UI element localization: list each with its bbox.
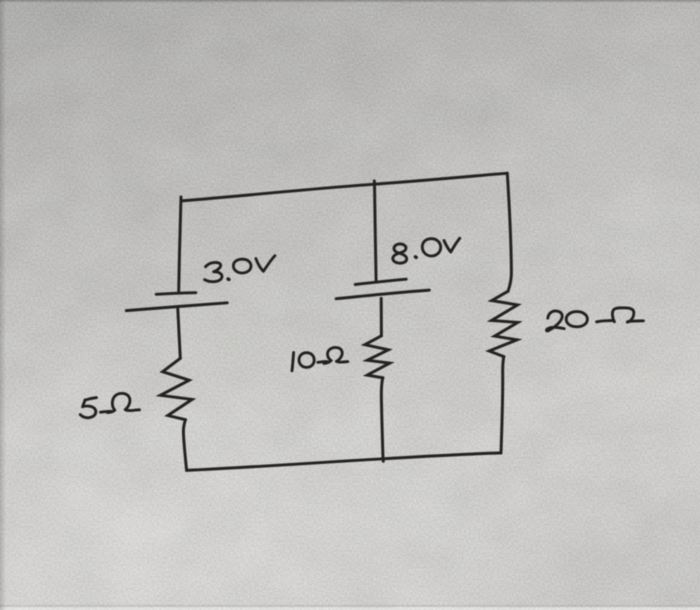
wire: left branch lower (resistor 5 ohm to bottom node) [183,420,186,471]
label: value 3.0V (handwritten) [205,256,275,282]
wire: middle branch upper (top node to battery 8.0V + plate) [375,183,377,281]
battery 8.0V (two plates) [336,279,429,299]
resistor 5 ohm (zigzag) [160,358,192,419]
wire: middle branch lower (resistor 10 ohm to bottom node) [381,378,383,459]
wire: right branch lower (resistor 20 ohm to bottom node) [501,357,504,453]
label: value 10 ohm (handwritten) [292,347,348,370]
wire: right branch upper (top node to resistor 20 ohm) [507,173,511,291]
resistor 20 ohm (zigzag) [489,291,518,356]
wire: bottom horizontal (common bottom node) [187,453,501,471]
battery 3.0V (two plates) [126,293,227,311]
wire: middle branch middle (battery 8.0V - plate to resistor 10 ohm) [380,298,383,335]
junction: middle branch meets bottom wire (small overshoot tick) [382,459,385,462]
wire: left branch upper (top node to battery 3.0V + plate), with corner overshoot [179,197,181,291]
wire: left branch middle (battery 3.0V - plate to resistor 5 ohm) [178,307,181,358]
resistor 10 ohm (zigzag) [365,336,390,378]
label: value 20 ohm (handwritten) [546,308,643,331]
junction: middle branch meets top wire (small overshoot tick) [373,181,376,185]
wire: top horizontal (node between 3.0V, 8.0V branches and 20 ohm branch) [181,173,507,201]
label: value 5 ohm (handwritten) [80,393,139,417]
label: value 8.0V (handwritten) [393,238,460,263]
